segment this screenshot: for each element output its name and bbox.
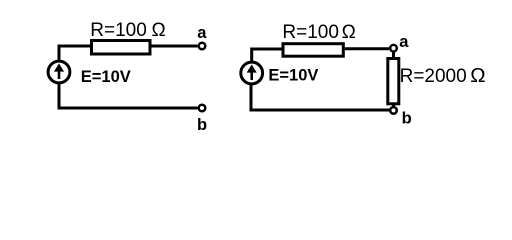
- svg-text:R=100: R=100: [90, 20, 147, 41]
- svg-text:R=2000: R=2000: [400, 66, 467, 87]
- svg-text:b: b: [197, 116, 207, 134]
- svg-text:a: a: [197, 24, 207, 42]
- svg-text:Ω: Ω: [470, 64, 485, 87]
- svg-text:E=10V: E=10V: [81, 68, 131, 86]
- svg-text:b: b: [402, 110, 412, 128]
- svg-text:Ω: Ω: [342, 22, 356, 43]
- svg-text:R=100: R=100: [282, 22, 339, 43]
- svg-text:E=10V: E=10V: [268, 67, 318, 85]
- svg-text:a: a: [399, 33, 409, 51]
- svg-text:Ω: Ω: [152, 20, 166, 41]
